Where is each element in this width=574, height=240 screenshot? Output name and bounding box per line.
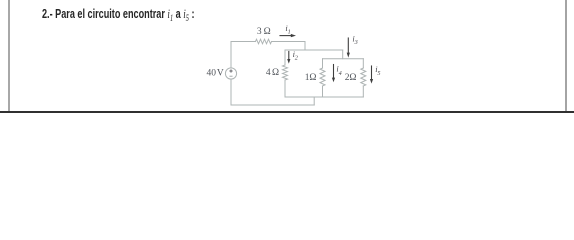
svg-text:5: 5 — [377, 70, 380, 77]
svg-text:V: V — [217, 69, 224, 79]
svg-text:Ω: Ω — [272, 68, 279, 78]
svg-text:Ω: Ω — [264, 27, 271, 37]
svg-text:4: 4 — [339, 70, 342, 77]
svg-text:Ω: Ω — [349, 73, 356, 83]
svg-text:40: 40 — [207, 69, 217, 79]
svg-text:4: 4 — [266, 68, 271, 78]
svg-text:1: 1 — [288, 28, 291, 35]
svg-text:Ω: Ω — [309, 73, 316, 83]
svg-text:2: 2 — [295, 54, 298, 61]
svg-text:3: 3 — [257, 27, 262, 37]
svg-text:3: 3 — [354, 39, 358, 46]
